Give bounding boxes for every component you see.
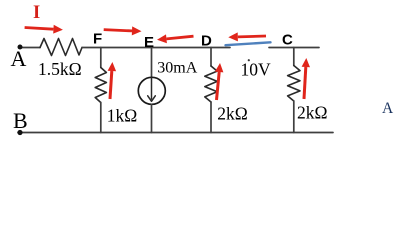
svg-text:D: D bbox=[201, 33, 212, 50]
svg-text:1kΩ: 1kΩ bbox=[107, 105, 138, 125]
wire C branch lower bbox=[293, 101, 295, 133]
current source arrow bbox=[148, 78, 156, 101]
svg-text:B: B bbox=[13, 108, 28, 133]
wire C branch upper bbox=[293, 48, 295, 66]
wire A to resistor bbox=[20, 47, 40, 49]
wire E branch lower bbox=[151, 104, 153, 132]
resistor 1k zigzag bbox=[95, 68, 106, 103]
dot above 10V bbox=[248, 59, 250, 61]
wire F branch upper bbox=[100, 48, 102, 68]
svg-text:E: E bbox=[144, 34, 154, 51]
current arrow up along 2k (D) bbox=[215, 63, 224, 100]
svg-text:10V: 10V bbox=[241, 59, 272, 79]
current arrow I (top left, rightward) bbox=[25, 25, 63, 34]
resistor 2k (C) zigzag bbox=[288, 66, 300, 102]
svg-text:I: I bbox=[33, 3, 40, 23]
current arrow up along 2k (C) bbox=[302, 58, 310, 99]
svg-text:1.5kΩ: 1.5kΩ bbox=[38, 59, 82, 79]
wire F branch lower bbox=[100, 103, 102, 133]
current arrow D to E (leftward) bbox=[157, 34, 194, 43]
node B dot bbox=[17, 130, 22, 135]
bottom wire B bbox=[18, 132, 333, 134]
svg-text:2kΩ: 2kΩ bbox=[297, 102, 328, 122]
current arrow F to E (rightward) bbox=[104, 26, 142, 35]
svg-text:A: A bbox=[11, 46, 27, 71]
node A dot bbox=[18, 45, 23, 50]
svg-text:C: C bbox=[282, 32, 293, 49]
wire E branch upper bbox=[151, 48, 153, 78]
blue jumper wire (shorted source) bbox=[226, 42, 271, 45]
current arrow C to D (leftward) bbox=[228, 32, 266, 41]
current arrow up along 1k bbox=[108, 62, 117, 99]
svg-text:F: F bbox=[93, 31, 102, 48]
wire D branch lower bbox=[210, 102, 212, 133]
svg-text:A: A bbox=[382, 100, 394, 117]
wire resistor to gap at 230 bbox=[82, 47, 230, 49]
resistor 2k (D) zigzag bbox=[205, 66, 217, 102]
svg-text:30mA: 30mA bbox=[157, 59, 197, 76]
wire top right segment 269-319 bbox=[269, 47, 319, 49]
svg-text:2kΩ: 2kΩ bbox=[217, 104, 248, 124]
resistor R 1.5k zigzag bbox=[40, 39, 82, 56]
wire D branch upper bbox=[210, 48, 212, 67]
current source circle bbox=[138, 77, 165, 104]
